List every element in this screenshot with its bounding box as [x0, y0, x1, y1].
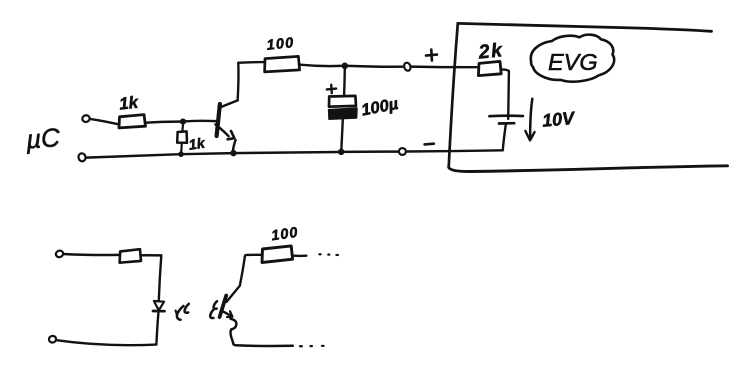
wire plus terminal into EVG box: [411, 65, 478, 68]
wire node C to minus terminal: [345, 150, 399, 153]
label minus sign: [425, 142, 434, 145]
transistor Q1 emitter with arrow: [216, 125, 229, 137]
svg-text:µC: µC: [24, 122, 61, 154]
resistor R2: [177, 131, 187, 142]
wire input to R1: [90, 119, 119, 124]
LED D1 triangle: [154, 301, 164, 310]
wire R3 to node B: [300, 65, 341, 66]
wire Q2 collector diagonal: [227, 256, 245, 302]
phototransistor light arrow 2: [214, 301, 217, 309]
terminal bottom circuit lower-left circle: [48, 335, 57, 343]
resistor R1: [119, 115, 146, 128]
wire Q1 collector diagonal: [219, 100, 237, 107]
LED light arrow 1: [177, 306, 184, 320]
EVG box bottom edge: [449, 166, 728, 172]
terminal bottom circuit top-left circle: [55, 250, 64, 259]
capacitor C1 top plate: [329, 96, 356, 107]
wire node A to Q1 base: [186, 120, 216, 123]
wire LED anode vertical: [159, 255, 162, 300]
transistor Q2 emitter with arrow: [222, 311, 232, 316]
battery B1 top plate: [489, 114, 523, 117]
EVG cloud outline: [531, 35, 614, 82]
svg-text:1k: 1k: [188, 136, 207, 154]
wire lower-left terminal to LED: [56, 340, 156, 345]
wire R6 to dots: [294, 254, 306, 257]
label plus sign: [426, 50, 437, 61]
node emitter junction dot: [230, 150, 236, 156]
EVG box left edge: [449, 23, 458, 167]
capacitor C1 bottom lead: [341, 120, 342, 149]
svg-text:100µ: 100µ: [360, 95, 400, 120]
terminal minus output circle: [399, 148, 406, 155]
LED light arrow 2: [185, 304, 189, 313]
capacitor C1 top lead: [343, 69, 346, 96]
node A junction dot: [180, 119, 186, 125]
svg-text:EVG: EVG: [548, 49, 598, 75]
wire minus terminal into EVG box: [407, 150, 503, 151]
phototransistor light arrow 1: [210, 309, 214, 318]
terminal bottom input circle: [78, 153, 87, 163]
wire Q2 collector top to R6: [245, 255, 262, 256]
wire R5 to corner: [141, 254, 161, 257]
svg-text:100: 100: [266, 35, 295, 54]
svg-text:2k: 2k: [477, 39, 505, 64]
dots bottom continuation: [299, 345, 303, 347]
wire collector vertical: [236, 63, 239, 101]
wire battery bottom to minus rail: [503, 124, 506, 149]
arrow 10V direction: [530, 99, 532, 137]
svg-text:10V: 10V: [541, 108, 577, 131]
transistor Q1 base bar: [217, 104, 220, 136]
node B junction dot: [342, 63, 349, 70]
resistor R5: [120, 249, 141, 263]
LED D1 cathode bar: [153, 310, 165, 313]
battery B1 bottom plate: [499, 122, 514, 125]
capacitor C1 bottom plate: [329, 108, 357, 119]
terminal top input circle: [81, 114, 90, 123]
wire node B to plus terminal: [348, 65, 403, 68]
wire bottom-circuit input to R5: [63, 254, 119, 255]
wire R1 to node A: [146, 122, 180, 123]
wire Q2 emitter hook to bottom: [230, 319, 236, 344]
dots top continuation: [318, 253, 321, 255]
resistor R6: [262, 246, 293, 263]
terminal plus output circle: [403, 62, 412, 72]
resistor R3: [265, 56, 300, 72]
wire Q1 emitter to bottom rail: [233, 140, 236, 152]
label plus sign C1: [327, 85, 336, 93]
wire node A to R2: [181, 125, 184, 131]
wire LED cathode vertical: [156, 312, 158, 345]
wire collector top to R3: [238, 61, 264, 64]
EVG box top edge: [458, 23, 712, 31]
wire R4 to battery top: [502, 69, 509, 119]
resistor R4: [478, 61, 501, 75]
wire R2 to bottom rail: [180, 143, 183, 151]
node R2 bottom junction dot: [178, 151, 184, 157]
svg-text:100: 100: [270, 225, 299, 245]
node C junction dot: [338, 149, 344, 155]
svg-text:1k: 1k: [118, 93, 140, 114]
bottom rail wire: [86, 152, 341, 158]
wire bottom to dots: [233, 343, 293, 346]
phototransistor Q2 base bar: [220, 296, 227, 317]
